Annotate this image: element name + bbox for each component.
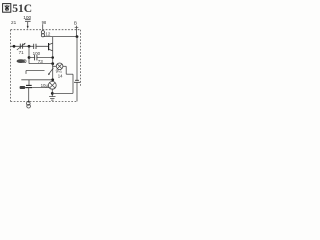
node [51, 92, 54, 95]
antenna lead wire [27, 22, 29, 27]
arrowhead into shield [27, 26, 29, 29]
node [28, 56, 31, 59]
wire from C4 to earphone 2 [32, 87, 49, 89]
transistor emitter stub [49, 49, 53, 51]
svg-text:51C: 51C [12, 3, 32, 15]
earphone circle 2 [48, 81, 56, 89]
variable capacitor arrow [17, 43, 25, 50]
wire y70.5 [26, 70, 45, 72]
variable capacitor C1 plates [20, 44, 22, 49]
lead circle2 bottom [51, 89, 53, 96]
wire y63.6 [29, 63, 53, 65]
shield box dashed right edge [80, 30, 82, 86]
drop to capacitor C4 [28, 80, 30, 86]
antenna coupling capacitor plates [25, 20, 31, 22]
tank wire horizontal [11, 45, 49, 47]
shield box dashed bottom edge [11, 101, 78, 103]
capacitor C4 bottom plate [25, 87, 32, 89]
node [51, 62, 54, 65]
node [51, 78, 54, 81]
battery plate short [75, 79, 79, 81]
svg-text:B: B [74, 21, 77, 26]
ground drop from C4 [28, 88, 30, 103]
svg-text:21: 21 [11, 20, 17, 25]
svg-text:73: 73 [38, 59, 44, 64]
svg-text:10μ: 10μ [41, 83, 49, 88]
rail below battery [76, 82, 78, 101]
adjustment arrow on bus [49, 68, 54, 74]
right rail wire [76, 37, 78, 80]
wire y57.5 [29, 57, 53, 59]
coil L (two loops) [42, 24, 44, 30]
earphone circle 1 [56, 63, 63, 70]
node at top right [76, 35, 79, 38]
shield box dashed top edge [11, 29, 81, 31]
wire down [72, 74, 74, 93]
stub down [25, 71, 27, 74]
lead from bus to circle 1 [53, 64, 57, 67]
node [51, 56, 54, 59]
battery plate long [74, 81, 80, 83]
tick near label B [75, 26, 79, 28]
capacitor C2 on tank wire [34, 44, 36, 49]
svg-text:71: 71 [19, 50, 25, 55]
ground symbol [49, 97, 55, 101]
earth loop symbol [27, 102, 31, 106]
wire down from circle 1 [65, 66, 67, 74]
svg-text:14: 14 [58, 74, 63, 79]
wire from label B down to rail [76, 26, 78, 37]
svg-text:12: 12 [45, 32, 51, 37]
transistor collector stub [49, 43, 53, 45]
wire y93.4 to right [52, 92, 73, 94]
wire top horizontal to right rail [44, 36, 77, 38]
capacitor C4 top plate [26, 84, 32, 86]
transistor base bar [48, 43, 50, 50]
coil blob (left) [17, 59, 25, 63]
node on shield edge [13, 45, 16, 48]
capacitor C3 plates on wire [35, 55, 37, 61]
wire across [66, 73, 73, 75]
wire y79.8 [21, 79, 52, 81]
title 图51C [3, 3, 33, 15]
lead right of circle 1 [63, 65, 66, 67]
shield box dashed left edge [10, 30, 12, 102]
node tank junction [28, 45, 31, 48]
vertical from tank node down [28, 46, 30, 63]
label blob left of C4 [20, 86, 26, 89]
vertical bus at x52.7 [52, 37, 54, 80]
